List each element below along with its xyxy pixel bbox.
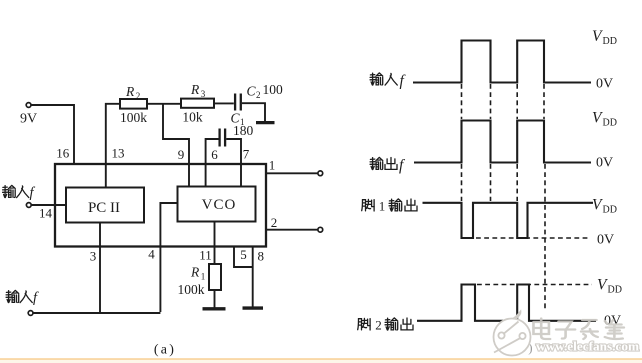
wire bottom input f [33,312,160,314]
svg-text:PC II: PC II [88,200,120,216]
wire pin 2 [266,229,318,231]
svg-text:www.elecfans.com: www.elecfans.com [536,339,639,354]
resistor R3 [181,99,214,108]
waveform pin 2 output [417,285,596,321]
svg-text:8: 8 [257,249,264,264]
svg-text:(a): (a) [154,343,176,358]
wire pin 8 to ground [252,247,254,307]
svg-text:DD: DD [603,118,617,129]
junction wire to pin 9 and VCO [163,104,189,187]
ground pins 5 and 8 [243,306,264,309]
svg-text:DD: DD [603,205,617,216]
resistor R2 [120,99,147,109]
IC CD4046 outline [55,164,266,247]
svg-text:V: V [592,197,603,214]
wire R1 to ground [214,290,216,308]
wire pin 1 [266,172,318,174]
block PC II [66,188,144,223]
wire R3 to C2 [214,102,234,104]
svg-text:14: 14 [39,206,53,221]
long dashed vertical at second falling edge [544,164,546,311]
circuit text labels [20,82,535,358]
wire 9V to pin 16 [31,105,74,163]
svg-text:4: 4 [148,247,155,262]
wire input to pin 14 [31,204,66,206]
svg-text:V: V [597,277,608,294]
wire C1 right to pin 7 and VCO [226,139,241,187]
label row2 output f [370,157,397,169]
svg-text:DD: DD [608,285,622,296]
svg-text:DD: DD [603,36,617,47]
svg-text:2: 2 [375,318,382,333]
svg-text:3: 3 [90,249,97,264]
wire C2 to ground [242,103,265,121]
svg-text:0V: 0V [596,156,613,171]
dashed verticals row2-row3 [461,164,463,201]
svg-text:2: 2 [271,215,278,230]
svg-text:1: 1 [269,158,276,173]
svg-text:V: V [592,28,603,45]
svg-text:3: 3 [201,89,206,99]
timing labels [375,28,622,333]
label input f (pin14) [3,185,29,197]
bottom strip [0,358,642,360]
svg-text:6: 6 [211,147,218,162]
label input f (pin3) [6,290,32,302]
svg-text:R: R [125,84,135,99]
wire VCO to pin 4 [160,203,177,312]
watermark logo [494,312,531,356]
svg-text:1: 1 [201,271,206,281]
svg-text:V: V [592,110,603,127]
label row4 pin2 output [358,318,413,330]
svg-text:10k: 10k [182,110,203,125]
svg-text:R: R [190,82,200,97]
svg-text:2: 2 [256,90,261,100]
svg-text:5: 5 [240,247,247,262]
wire pin 5 [234,247,253,268]
label row1 input f [370,73,397,85]
terminal 9V supply [26,103,31,108]
svg-text:100k: 100k [120,110,147,125]
ground C2 [256,121,275,124]
svg-text:100: 100 [263,82,284,97]
svg-text:2: 2 [136,91,141,101]
terminal input f (pin 3) [28,311,33,316]
waveform pin 1 output [423,203,594,238]
waveform input f [413,41,591,83]
waveform output f [414,121,591,163]
label row3 pin1 output [362,199,417,211]
svg-text:13: 13 [112,146,125,161]
svg-text:C: C [247,84,257,99]
dashed 0V level pin1 waveform [476,237,590,239]
svg-text:0V: 0V [596,77,613,92]
terminal pin 1 output [318,171,323,176]
watermark text 电子发烧友 [533,319,623,340]
svg-text:R: R [190,265,200,280]
dashed VDD level pin2 waveform [477,284,592,286]
wire R2 to R3 [147,103,181,105]
svg-text:9V: 9V [20,112,37,127]
ground R1 [203,307,226,310]
svg-text:180: 180 [233,123,254,138]
svg-text:VCO: VCO [202,197,237,213]
node pin13 top / wire R2 left to pin 13 to PCII top [106,104,120,188]
terminal pin 2 output [318,227,323,232]
svg-text:100k: 100k [178,282,205,297]
block VCO [178,187,256,222]
terminal input f (pin 14) [26,203,31,208]
wire C1 left to pin 6 and VCO [206,139,219,187]
wire pin 3 [99,223,101,313]
capacitor C1 [220,129,226,147]
svg-text:1: 1 [379,199,386,214]
resistor R1 [209,264,221,290]
svg-text:9: 9 [178,147,185,162]
wire pin 11 to R1 [214,222,216,265]
dashed verticals row1-row2 [462,84,546,311]
capacitor C2 [235,94,241,111]
svg-text:0V: 0V [597,233,614,248]
svg-text:11: 11 [199,248,212,263]
svg-text:7: 7 [243,147,250,162]
svg-text:16: 16 [56,146,70,161]
